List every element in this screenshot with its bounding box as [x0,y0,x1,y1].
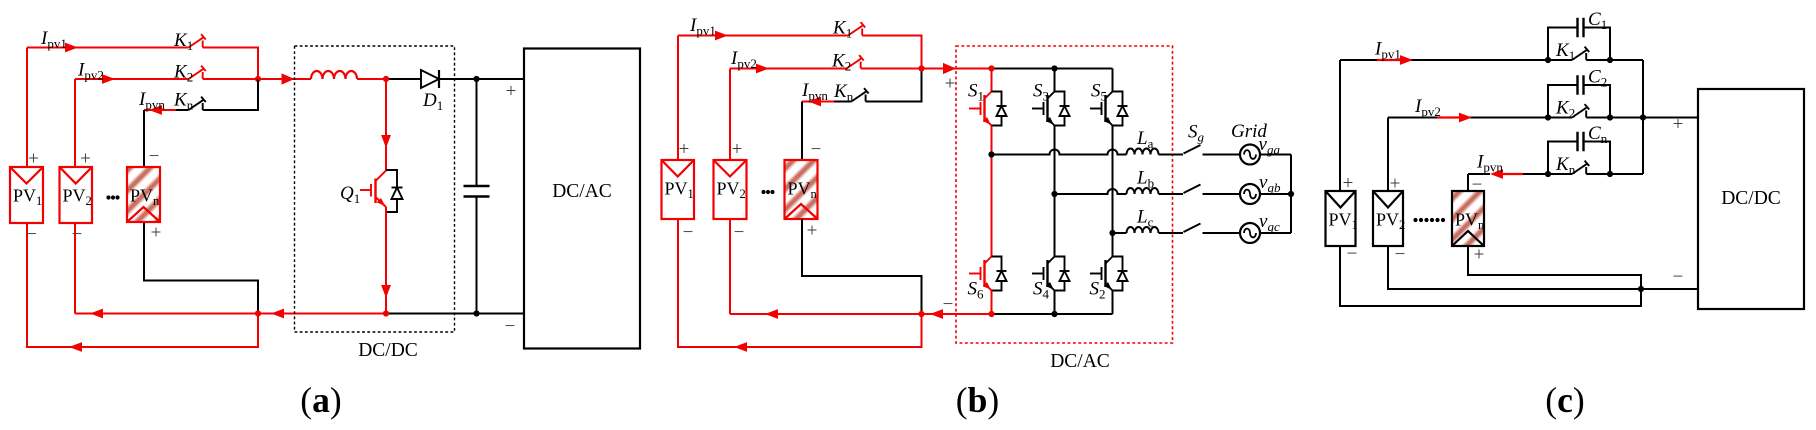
svg-text:+: + [679,139,690,160]
svg-text:+: + [1390,173,1401,194]
wire PV1 top (b) [677,36,679,161]
svg-text:DC/AC: DC/AC [552,181,612,202]
wire K2 to node (a) [203,78,258,80]
svg-text:+: + [506,81,517,102]
wire D1 to DC/AC (a) [439,78,524,80]
wire Kn to node (a) [203,79,258,110]
current arrow Ipvn (c) [1501,173,1523,175]
current arrow rail down lower (a) [381,285,391,298]
wire PVn top black (a) [143,110,145,167]
svg-text:+: + [732,139,743,160]
switch phase c (b) [1184,224,1201,233]
bus vertical (c) [1642,60,1644,174]
svg-text:−: − [505,316,516,337]
PV module PV1 (a) [10,167,43,223]
wire K1 to corner (b) [862,36,921,69]
wire Ipv2 (a) horizontal [75,78,189,80]
wire Ipv2 (c) [1388,117,1548,119]
current arrow Ipv1 (a) [65,43,78,53]
top rail (b) [992,68,1113,70]
IGBT S6 (b) [969,257,992,291]
current arrow Ipv2 (c) [1437,116,1461,118]
wire PV2 bottom (c) [1388,246,1641,289]
wire node into DC/AC box (b) [922,68,992,70]
arrow bottom rail (a) [271,309,284,319]
svg-text:+: + [80,148,91,169]
wire combo1 to bus (c) [1610,59,1643,61]
wire PVn bottom black (b) [802,219,922,314]
svg-text:−: − [1395,244,1406,265]
leg3 middle (b) [1112,126,1114,257]
PV module PV2 (c) [1373,191,1403,246]
svg-text:+: + [1343,173,1354,194]
wire Ipvn (c) [1468,173,1490,175]
svg-text:(c): (c) [1545,380,1584,420]
arrow return upper (a) [90,309,103,319]
bottom rail black (a) [386,313,524,315]
phase c wire (b) [1113,232,1127,234]
current arrow Ipvn (a) [149,105,162,115]
ellipsis dots (a) [106,195,119,199]
wire PV2 top (b) [729,69,731,161]
arrow into DC/DC box (a) [282,73,295,84]
wire Ipvn to combo (c) [1523,173,1548,175]
svg-text:(b): (b) [956,380,999,420]
wire combo2 to bus (c) [1610,117,1643,119]
svg-text:−: − [1347,243,1358,264]
wire PVn bottom black (a) [144,222,258,314]
switch Sg phase a (b) [1184,145,1201,154]
svg-text:+: + [1474,244,1485,265]
svg-text:DC/DC: DC/DC [358,340,418,361]
svg-text:Grid: Grid [1231,121,1267,142]
wire Lc to switch (b) [1159,232,1184,234]
wire PV1 top (c) [1339,60,1341,191]
svg-text:−: − [1472,174,1483,195]
node capacitor bottom (a) [473,310,479,316]
leg2 lower (b) [1054,291,1056,315]
capacitor dc-link (a) [476,79,478,186]
capacitor C2 switch K2 parallel combo (c) [1548,85,1578,118]
leg1 upper (b) [991,69,993,92]
IGBT Q1 (a) [360,171,386,208]
switch K2 (b) [847,55,864,68]
wire Lb to switch (b) [1159,193,1184,195]
wire switch to source a (b) [1203,154,1241,156]
leg3 upper (b) [1112,69,1114,92]
inductor Lb (b) [1127,188,1159,194]
transistor rail lower (a) [385,207,387,314]
svg-text:−: − [149,146,160,167]
diode D1 (a) [421,70,439,88]
node top rail leg1 (b) [988,65,994,71]
switch K1 (a) [189,34,206,47]
transistor rail upper (a) [385,79,387,171]
node return junction (a) [255,310,261,316]
bottom rail (b) [992,313,1113,315]
bottom rail red (a) [258,313,386,315]
svg-text:−: − [72,224,83,245]
wire return lower via PV1 (a) [27,223,258,347]
switch phase b (b) [1184,185,1201,194]
PV module PVn shaded (b) [785,160,818,219]
switch K1 (b) [848,22,865,35]
node phase c (b) [1109,230,1115,236]
node grid bus (b) [1288,191,1294,197]
svg-text:+: + [807,220,818,241]
node phase a (b) [988,151,994,157]
wire switch to source c (b) [1203,232,1241,234]
wire PV1 top (a) [26,48,28,168]
node bus (c) [1640,114,1646,120]
wire PV2 bottom (a) [74,223,76,314]
wire PV2 top (a) [74,79,76,167]
current arrow Ipvn (b) [808,97,821,107]
PV module PV1 (b) [662,160,695,219]
IGBT S2 (b) [1090,257,1113,291]
node junction K1/K2 (a) [255,76,261,82]
phase b wire with hop (b) [1055,189,1127,194]
IGBT S1 (b) [969,92,992,126]
wire PV2 top (c) [1387,118,1389,192]
phase a wire with hops (b) [992,150,1127,155]
wire node to diode D1 (a) [386,78,421,80]
arrow return lower (a) [69,342,82,352]
inductor boost (a) [311,71,357,79]
svg-text:+: + [945,73,956,94]
grid bus vertical (b) [1290,155,1292,234]
wire PVn top black (b) [801,102,803,161]
switch K2 (a) [189,66,206,79]
AC source vgc (b) [1240,223,1260,243]
wire PV2 bottom (b) [729,219,731,314]
DC/DC block (c) [1698,89,1804,309]
wire Ipvn corner segment (a) [144,109,176,111]
node phase b (b) [1051,191,1057,197]
wire La to switch (b) [1159,154,1184,156]
wire Ipv2 (b) [730,68,847,70]
svg-text:DC/AC: DC/AC [1050,351,1110,372]
svg-text:−: − [26,224,37,245]
leg1 middle (b) [991,126,993,257]
wire source a to bus (b) [1260,154,1291,156]
wire node into box bottom (b) [922,313,992,315]
DC/AC inverter block (a) [524,49,640,349]
AC source vgb (b) [1240,184,1260,204]
current arrow Ipv1 (c) [1377,59,1402,61]
inductor La (b) [1127,149,1159,155]
PV module PV2 (b) [714,160,747,219]
svg-text:−: − [943,294,954,315]
node boost bottom (a) [383,310,389,316]
switch Kn (b) [851,88,868,101]
AC source vga (b) [1240,145,1260,165]
node capacitor top (a) [473,76,479,82]
PV module PVn shaded (a) [127,167,160,222]
wire Ipvn black segment (b) [834,101,851,103]
switch Kn (a) [189,97,206,110]
current arrow Ipv1 (b) [715,31,728,41]
wire return upper (b) [730,313,922,315]
svg-text:(a): (a) [300,380,341,420]
svg-text:−: − [734,222,745,243]
node bottom rail leg1 (b) [988,311,994,317]
DC/AC dashed red box (b) [956,46,1173,343]
PV module PV1 (c) [1326,191,1356,246]
PV module PV2 (a) [60,167,93,223]
wire return lower via PV1 (b) [678,219,922,347]
wire source b to bus (b) [1260,193,1291,195]
node bottom junction (c) [1638,286,1644,292]
node junction K-lines (b) [918,65,924,71]
wire Ipv1 (a) horizontal [27,47,189,49]
wire K1 to corner (a) [203,48,258,80]
ellipsis dots (c) [1413,218,1445,222]
arrow bottom entry (b) [930,309,943,319]
node bottom rail leg2 (b) [1051,311,1057,317]
wire return upper (a) [75,313,258,315]
inductor Lc (b) [1127,227,1159,233]
IGBT S4 (b) [1032,257,1055,291]
IGBT S3 (b) [1032,92,1055,126]
node top rail leg2 (b) [1051,65,1057,71]
ellipsis dots (b) [761,190,774,194]
wire PVn top (c) [1467,174,1469,191]
current arrow Ipv2 (a) [102,74,115,84]
leg1 lower (b) [991,291,993,315]
svg-text:−: − [811,139,822,160]
svg-text:+: + [151,222,162,243]
wire Ipv1 (b) [678,35,848,37]
node return junction (b) [918,311,924,317]
wire Kn to node (b) [866,69,922,102]
leg2 middle (b) [1054,126,1056,257]
wire Ipvn corner segment (b) [802,101,834,103]
current arrow Ipv2 (b) [756,64,769,74]
svg-text:+: + [1673,114,1684,135]
capacitor C1 switch K1 parallel combo (c) [1548,28,1578,61]
wire switch to source b (b) [1203,193,1241,195]
current arrow rail down upper (a) [381,135,391,148]
leg2 upper (b) [1054,69,1056,92]
arrow return upper (b) [765,309,778,319]
svg-text:DC/DC: DC/DC [1721,188,1781,209]
wire bus to DC/DC (c) [1643,117,1698,119]
leg3 lower (b) [1112,291,1114,315]
wire Ipvn black segment (a) [176,109,189,111]
wire combo3 to bus (c) [1610,173,1643,175]
svg-text:−: − [683,222,694,243]
arrow return lower (b) [734,342,747,352]
DC/DC converter dashed box (a) [295,46,455,332]
IGBT S5 (b) [1090,92,1113,126]
svg-text:−: − [1673,266,1684,287]
svg-text:+: + [28,148,39,169]
wire inductor to node (a) [357,78,386,80]
capacitor Cn switch Kn parallel combo (c) [1548,142,1578,175]
wire source c to bus (b) [1260,232,1291,234]
wire PVn bottom (c) [1468,246,1641,289]
wire node to DC/DC box (a) [258,78,311,80]
wire node to DC/DC bottom (c) [1641,288,1698,290]
arrow into DC/AC box (b) [943,63,956,74]
PV module PVn shaded (c) [1452,191,1484,246]
wire Ipv1 (c) [1340,59,1548,61]
wire PV1 bottom (c) [1340,246,1641,306]
node boost top (a) [383,76,389,82]
wire K2 to node (b) [861,68,922,70]
